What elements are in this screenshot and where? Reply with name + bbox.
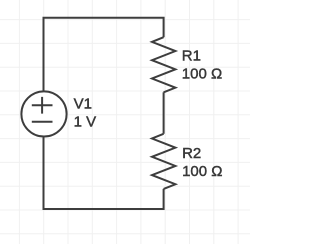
- resistor R1: [152, 37, 175, 92]
- wire: bottom from R2 to V1: [44, 137, 164, 209]
- svg-text:100 Ω: 100 Ω: [182, 163, 222, 180]
- wire: R1 to R2: [163, 92, 165, 134]
- wire: top from V1 to R1: [44, 18, 164, 91]
- svg-text:V1: V1: [74, 96, 92, 113]
- resistor R2: [152, 134, 175, 189]
- svg-text:R1: R1: [182, 47, 201, 64]
- svg-text:1 V: 1 V: [74, 114, 97, 131]
- svg-text:R2: R2: [182, 145, 201, 162]
- svg-text:100 Ω: 100 Ω: [182, 65, 222, 82]
- voltage source V1: [21, 91, 66, 136]
